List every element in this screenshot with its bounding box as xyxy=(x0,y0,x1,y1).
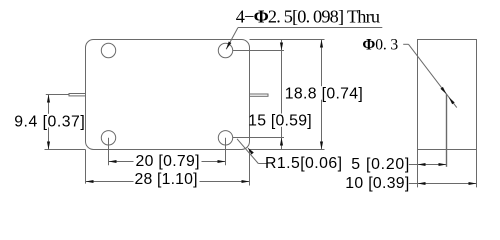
arrow: dim 18.8 bottom xyxy=(320,142,323,150)
arrow: dim 15 bottom (outside) xyxy=(280,138,283,146)
dim 20 extension line from bottom-left hole xyxy=(108,138,110,166)
mounting hole bottom-left xyxy=(101,131,115,145)
dim 9.4 extension line at bottom edge xyxy=(45,149,86,151)
arrow: dim 10 right xyxy=(469,182,477,185)
text background gaps xyxy=(14,114,85,128)
dim 5/10 extension line left (side) xyxy=(417,150,419,188)
dim 18.8 extension line from top edge xyxy=(250,39,325,41)
svg-text:18.8 [0.74]: 18.8 [0.74] xyxy=(285,86,363,103)
dim 5 dimension line xyxy=(409,164,447,166)
svg-text:5 [0.20]: 5 [0.20] xyxy=(351,156,409,173)
leader diagonal to top-right hole xyxy=(226,28,238,50)
arrow: dim 10 left xyxy=(418,182,426,185)
dim 9.4 dimension line xyxy=(48,95,50,150)
right terminal tab xyxy=(250,94,269,96)
arrow: dim 20 left xyxy=(109,160,117,163)
leader underline for hole callout xyxy=(238,27,382,29)
mounting hole bottom-right xyxy=(218,131,232,145)
dim 28 extension line left xyxy=(85,150,87,184)
dim 18.8 dimension line xyxy=(321,40,323,150)
arrow: dim 15 top (outside) xyxy=(280,43,283,51)
arrow: dim 28 left xyxy=(86,180,94,183)
left terminal tab xyxy=(69,94,86,96)
svg-text:9.4 [0.37]: 9.4 [0.37] xyxy=(14,113,85,130)
dim 10 extension line right (side) xyxy=(476,150,478,188)
dim 18.8 extension line from bottom edge xyxy=(250,149,325,151)
arrow: hole callout leader xyxy=(226,42,231,50)
arrow: phi0.3 lower (at pin) xyxy=(449,97,455,104)
dim 10 dimension line xyxy=(409,183,477,185)
arrow: dim 20 right xyxy=(218,160,226,163)
svg-text:4−Φ2. 5[0. 098] Thru: 4−Φ2. 5[0. 098] Thru xyxy=(236,6,380,26)
dim 20 dimension line xyxy=(109,161,226,163)
mounting hole top-right xyxy=(218,43,232,57)
arrow: dim 5 left xyxy=(418,163,426,166)
arrow: dim 5 right xyxy=(439,163,447,166)
R1.5 leader diagonal xyxy=(237,139,258,164)
R1.5 leader horizontal stub xyxy=(258,163,266,165)
terminal pin (0.3 wire, edge view) xyxy=(446,94,448,167)
dim 15 extension line from bottom hole center xyxy=(233,137,285,139)
dim 15 extension line from top hole center xyxy=(233,50,285,52)
arrow: R1.5 leader at corner arc xyxy=(247,147,253,154)
phi0.3 leader horizontal stub xyxy=(403,43,408,45)
dim 20 extension line from bottom-right hole xyxy=(225,138,227,166)
arrow: phi0.3 upper (at pin) xyxy=(440,87,446,94)
dim 28 extension line right xyxy=(249,150,251,186)
svg-text:20 [0.79]: 20 [0.79] xyxy=(136,153,200,170)
svg-text:R1.5[0.06]: R1.5[0.06] xyxy=(265,155,342,172)
dim 15 dimension line xyxy=(281,40,283,150)
svg-text:10 [0.39]: 10 [0.39] xyxy=(345,175,409,192)
svg-text:Φ0. 3: Φ0. 3 xyxy=(362,37,398,54)
arrow: dim 28 right xyxy=(242,180,250,183)
arrow: dim 9.4 bottom xyxy=(47,142,50,150)
mounting hole top-left xyxy=(101,43,115,57)
switch body outline (front view 28 x 18.8) xyxy=(86,40,250,150)
svg-text:28 [1.10]: 28 [1.10] xyxy=(135,171,198,188)
arrow: dim 9.4 top xyxy=(47,95,50,103)
dim 9.4 extension line at tab xyxy=(46,94,70,96)
dim 28 dimension line xyxy=(86,181,250,183)
switch body outline (side view 10 wide) xyxy=(418,40,477,150)
phi0.3 leader diagonal xyxy=(409,44,457,107)
svg-text:15 [0.59]: 15 [0.59] xyxy=(248,113,312,130)
arrow: dim 18.8 top xyxy=(320,40,323,48)
